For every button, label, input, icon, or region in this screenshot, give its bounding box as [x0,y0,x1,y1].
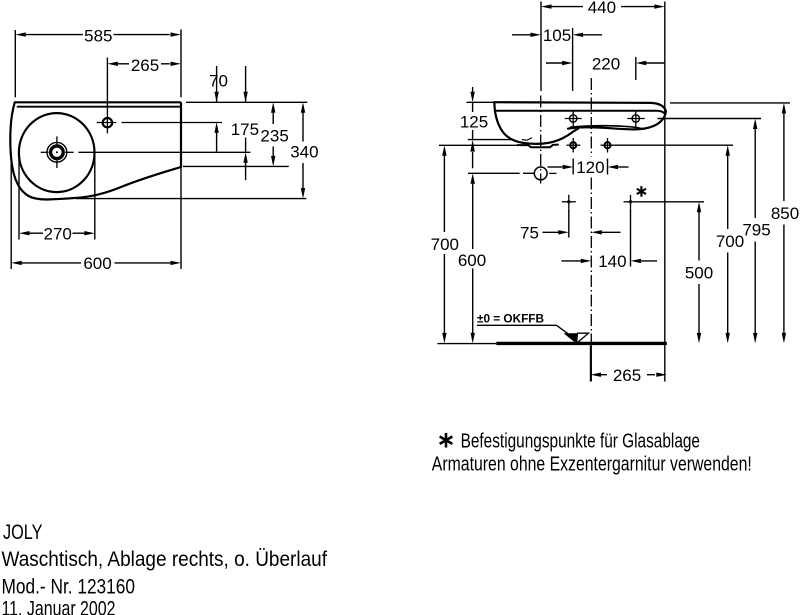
svg-text:Mod.- Nr. 123160: Mod.- Nr. 123160 [2,575,136,599]
height 850 stem [783,111,785,202]
svg-text:700: 700 [716,232,744,251]
svg-text:105: 105 [543,26,571,45]
svg-text:±0 = OKFFB: ±0 = OKFFB [477,313,544,325]
tap hole centerlines [97,122,117,124]
svg-text:Befestigungspunkte für Glasabl: Befestigungspunkte für Glasablage [461,430,700,452]
svg-text:600: 600 [458,251,486,270]
svg-text:700: 700 [431,235,459,254]
svg-text:Waschtisch, Ablage rechts, o.: Waschtisch, Ablage rechts, o. Überlauf [2,547,328,571]
height 500 reference line [638,201,705,203]
dimension 120 line and arrows [548,166,563,168]
svg-text:175: 175 [231,120,259,139]
svg-text:11. Januar 2002: 11. Januar 2002 [2,596,116,615]
dimension 340 stem and arrows [302,106,304,142]
height 600 left stem [472,183,474,249]
svg-text:235: 235 [260,127,288,146]
dimension 140 extension line [630,209,632,267]
svg-text:850: 850 [771,204,799,223]
basin plan right edge [180,102,182,167]
dimension 125 top reference line [467,101,495,103]
glass shelf fixing cross left [568,195,570,209]
dimension 125 stem and arrows [472,87,474,93]
svg-text:585: 585 [84,27,112,46]
height 700 reference line left [439,144,518,146]
plan top edge extension line [186,101,307,103]
shelf underside upper line [571,126,645,129]
floor line thick part [496,342,667,345]
height 795 reference line [658,118,762,120]
dimension 440 extension line left [540,2,542,92]
tap/hole extension line [572,28,574,91]
svg-text:600: 600 [83,254,111,273]
dimension 75 line and arrows [543,231,563,233]
outlet fitting under bowl [518,145,559,148]
lower fixing hole left [570,142,576,148]
dimension 265 extension line [590,346,592,382]
dimension 585 line and arrows [26,34,83,36]
dimension 600 extension lines [10,161,12,269]
svg-text:120: 120 [576,158,604,177]
bowl centerline dash-dot [540,96,542,184]
lower fixing hole right [605,142,611,148]
dimension 235 stem and arrows [272,106,274,124]
right edge long extension line [664,2,666,382]
note asterisk [445,433,448,448]
dimension 220 line and arrows [546,62,563,64]
svg-text:270: 270 [44,224,72,243]
glass shelf fixing cross right [630,195,632,209]
dimension 220 extension line [635,57,637,80]
svg-text:265: 265 [613,366,641,385]
drain centerlines [41,151,49,153]
svg-text:220: 220 [592,54,620,73]
height 500 stem [698,210,700,261]
svg-text:70: 70 [209,72,228,91]
height 795 stem [754,127,756,219]
svg-text:500: 500 [685,264,713,283]
plan front edge extension line [183,165,289,167]
trap outlet circle [534,167,547,180]
svg-text:Armaturen ohne Exzentergarnitu: Armaturen ohne Exzentergarnitur verwende… [432,454,752,476]
dimension 270 extension lines [18,153,20,240]
dimension 120 extension lines [572,159,574,175]
height 700 left stem [443,153,445,232]
asterisk marker at fixing point [640,186,642,197]
dimension 75 extension line [568,209,570,238]
tap hole circle [103,118,112,127]
svg-text:JOLY: JOLY [3,520,43,544]
floor line thin part [438,343,497,345]
svg-text:440: 440 [588,0,616,17]
dimension 600 line and arrows [22,262,82,264]
dimension 265 line and arrows [118,63,129,65]
drain ring [51,146,64,159]
dimension 440 line and arrows [552,6,584,8]
drain outer circle [47,142,67,162]
basin front rim line [496,111,664,113]
svg-text:795: 795 [742,221,770,240]
height 600 reference line [468,172,520,174]
height 700 reference line right [615,144,734,146]
svg-text:75: 75 [520,223,539,242]
dimension 270 line and arrows [30,232,44,234]
bowl circle [19,113,95,192]
svg-text:340: 340 [290,143,318,162]
basin plan rim inner line [17,106,181,108]
svg-text:125: 125 [460,112,488,131]
dimension 140 line and arrows [561,260,581,262]
basin plan top edge [15,101,181,103]
dimension 585 extension lines [14,30,16,97]
upper fixing hole right [632,115,639,122]
waterline mark in bowl [523,138,532,140]
dimension 175 stem and arrows [245,66,247,102]
plan bottom extension line [76,198,306,200]
basin front outline [494,102,578,143]
svg-text:140: 140 [598,252,626,271]
basin plan outline [10,102,181,199]
dimension 70 stem and arrows [216,66,218,102]
dimension 105 line and arrows [512,34,531,36]
dimension 265 line and arrows [591,373,602,377]
floor level datum symbol [564,333,578,343]
upper fixing hole left [570,115,577,122]
basin centerline dash-dot [590,78,592,157]
height 850 top reference line [670,102,790,104]
floor level leader line [477,324,557,326]
dimension 265 extension line [106,58,108,113]
height 700 right stem [727,153,729,229]
svg-text:265: 265 [131,56,159,75]
